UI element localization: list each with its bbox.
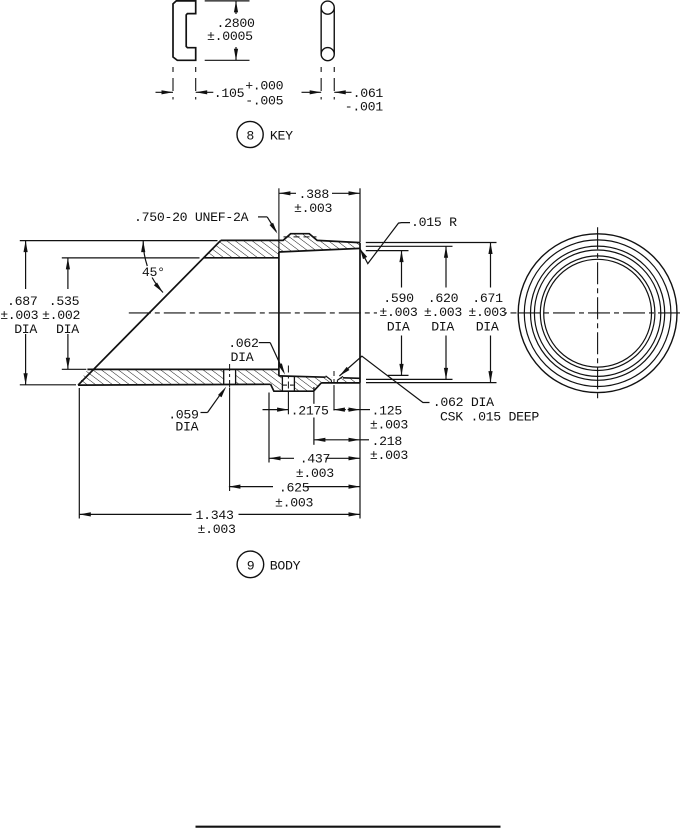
svg-text:.620: .620 xyxy=(428,291,459,306)
svg-text:CSK .015 DEEP: CSK .015 DEEP xyxy=(440,409,539,424)
svg-text:.062 DIA: .062 DIA xyxy=(433,395,494,410)
svg-text:±.0005: ±.0005 xyxy=(207,29,253,44)
svg-text:±.003: ±.003 xyxy=(294,201,332,216)
svg-text:±.003: ±.003 xyxy=(198,522,236,537)
svg-text:45°: 45° xyxy=(142,265,165,280)
svg-text:DIA: DIA xyxy=(14,322,37,337)
svg-text:±.003: ±.003 xyxy=(275,495,313,510)
svg-text:±.003: ±.003 xyxy=(370,417,408,432)
svg-text:DIA: DIA xyxy=(231,350,254,365)
svg-text:DIA: DIA xyxy=(175,419,198,434)
svg-text:9: 9 xyxy=(247,559,255,574)
svg-text:DIA: DIA xyxy=(56,322,79,337)
svg-text:.015 R: .015 R xyxy=(411,215,457,230)
svg-text:-.001: -.001 xyxy=(345,100,383,115)
svg-text:±.003: ±.003 xyxy=(424,305,462,320)
svg-text:.437: .437 xyxy=(300,452,330,467)
svg-text:BODY: BODY xyxy=(270,558,301,573)
svg-text:DIA: DIA xyxy=(476,319,499,334)
svg-text:.2175: .2175 xyxy=(291,404,329,419)
svg-text:DIA: DIA xyxy=(387,319,410,334)
svg-text:8: 8 xyxy=(246,129,254,144)
svg-text:-.005: -.005 xyxy=(245,93,283,108)
svg-text:.125: .125 xyxy=(372,404,403,419)
svg-text:.105: .105 xyxy=(214,86,245,101)
svg-text:.590: .590 xyxy=(383,291,414,306)
svg-text:.625: .625 xyxy=(279,481,310,496)
svg-text:±.003: ±.003 xyxy=(468,305,506,320)
svg-text:.062: .062 xyxy=(228,336,258,351)
svg-text:.218: .218 xyxy=(372,434,403,449)
svg-text:±.003: ±.003 xyxy=(0,308,38,323)
svg-text:DIA: DIA xyxy=(431,319,454,334)
svg-text:+.000: +.000 xyxy=(245,78,283,93)
svg-text:.687: .687 xyxy=(7,294,37,309)
svg-text:.671: .671 xyxy=(472,291,503,306)
svg-text:±.003: ±.003 xyxy=(379,305,417,320)
svg-text:±.003: ±.003 xyxy=(296,466,334,481)
svg-text:±.002: ±.002 xyxy=(42,308,80,323)
svg-text:KEY: KEY xyxy=(270,128,293,143)
svg-text:.388: .388 xyxy=(299,187,330,202)
svg-text:.750-20 UNEF-2A: .750-20 UNEF-2A xyxy=(134,210,249,225)
svg-text:±.003: ±.003 xyxy=(370,448,408,463)
svg-text:.535: .535 xyxy=(49,294,80,309)
